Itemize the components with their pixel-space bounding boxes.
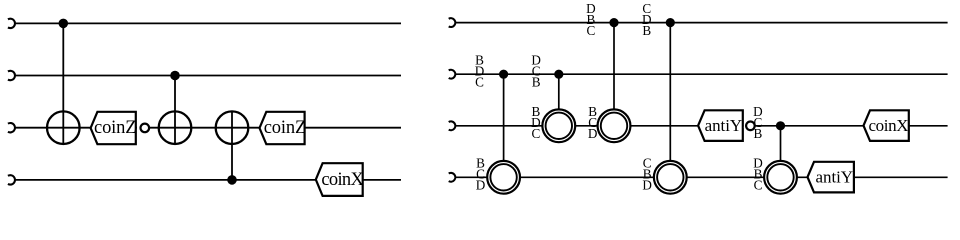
- wire q4: [15, 179, 401, 181]
- anticontrol (open circle) on q3: [141, 124, 150, 133]
- double-circle gate on r4 column 1: [487, 161, 520, 194]
- gate coinX #2 on r3: [864, 110, 909, 141]
- double-circle gate on r3 column 3: [598, 109, 631, 142]
- CNOT1 control dot on q1: [59, 19, 69, 29]
- CNOT2 vertical wire q2-q3: [174, 76, 176, 145]
- svg-text:D: D: [588, 126, 598, 141]
- white gap before anticontrol: [137, 127, 141, 130]
- svg-text:coinX: coinX: [869, 116, 909, 135]
- svg-text:C: C: [754, 178, 763, 193]
- wire r3: [455, 125, 947, 127]
- wire q2 start symbol: [8, 71, 15, 80]
- control wire r1-r3 column 3: [613, 23, 615, 110]
- CNOT2 control dot on q2: [170, 71, 180, 81]
- wire q2: [15, 75, 401, 77]
- double-circle gate on r4 column 4: [654, 161, 687, 194]
- control wire r1-r4 column 4: [669, 23, 671, 161]
- gate coinZ #2 on q3: [260, 112, 305, 144]
- svg-text:C: C: [532, 126, 541, 141]
- control wire r2-r3 column 2: [558, 74, 560, 109]
- wire r1: [455, 22, 947, 24]
- control wire r2-r4 column 1: [503, 74, 505, 161]
- wire r2 start symbol: [449, 70, 456, 79]
- wire q3: [15, 127, 401, 129]
- CNOT3 control dot on q4: [227, 175, 237, 185]
- svg-text:C: C: [587, 23, 596, 38]
- gate coinX #1 on q4: [316, 163, 363, 196]
- control dot on r2 column 2: [554, 70, 563, 79]
- control dot on r3 column 5: [776, 121, 785, 130]
- wire q1 start symbol: [8, 19, 15, 28]
- svg-text:antiY: antiY: [705, 116, 743, 135]
- svg-text:D: D: [476, 178, 486, 193]
- wire r3 start symbol: [449, 121, 456, 130]
- svg-text:B: B: [754, 126, 763, 141]
- control dot on r2 column 1: [499, 70, 508, 79]
- wire r4 start symbol: [449, 173, 456, 182]
- svg-text:B: B: [532, 75, 541, 90]
- white gap before anticontrol r3: [744, 125, 747, 128]
- svg-text:coinZ: coinZ: [94, 118, 137, 138]
- wire r1 start symbol: [449, 18, 456, 27]
- anticontrol (open circle) on r3: [746, 122, 755, 131]
- double-circle gate on r3 column 2: [542, 109, 575, 142]
- svg-text:antiY: antiY: [816, 167, 854, 186]
- wire r2: [455, 73, 947, 75]
- control dot on r1 column 3: [609, 18, 618, 27]
- wire r4: [455, 176, 947, 178]
- gate coinZ #1 on q3: [91, 112, 136, 144]
- gate antiY #1 on r3: [698, 110, 743, 141]
- control dot on r1 column 4: [666, 18, 675, 27]
- svg-text:C: C: [475, 75, 484, 90]
- CNOT3 target on q3: [216, 111, 249, 144]
- CNOT1 target on q3: [47, 111, 80, 144]
- CNOT3 vertical wire q3-q4: [231, 111, 233, 179]
- svg-text:B: B: [642, 23, 651, 38]
- svg-text:D: D: [642, 178, 652, 193]
- double-circle gate on r4 column 5: [764, 161, 797, 194]
- control wire r3-r4 column 5: [780, 126, 782, 161]
- wire q4 start symbol: [8, 175, 15, 184]
- svg-text:coinX: coinX: [321, 170, 364, 190]
- CNOT2 target on q3: [159, 111, 192, 144]
- CNOT1 vertical wire q1-q3: [62, 23, 64, 144]
- svg-text:coinZ: coinZ: [264, 118, 307, 138]
- wire q1: [15, 22, 401, 24]
- wire q3 start symbol: [8, 123, 15, 132]
- gate antiY #2 on r4: [808, 162, 854, 193]
